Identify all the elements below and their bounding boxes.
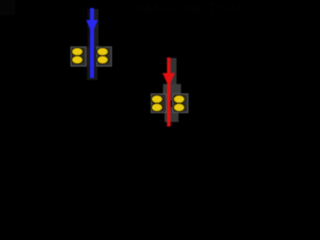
right unit: left orbital box: [151, 94, 166, 113]
blue spin arrow (down): [86, 8, 98, 78]
right unit: electron lobes left pair: [151, 95, 162, 112]
left unit: electron lobes left pair: [72, 48, 83, 65]
left unit: dark vertical lobe upper: [94, 9, 99, 47]
right unit: gray vertical lobe upper: [170, 58, 177, 84]
svg-text:DIAMAGNETISM: DIAMAGNETISM: [128, 0, 242, 17]
left unit: electron lobes right pair: [97, 48, 108, 65]
right unit: right orbital box: [173, 94, 188, 113]
left unit: center gap fill: [87, 47, 97, 66]
faint corner rectangle: [0, 0, 15, 15]
left unit: dark vertical lobe lower: [87, 66, 98, 80]
left unit: right orbital box: [97, 47, 112, 66]
left unit: left orbital box: [71, 47, 86, 66]
right unit: gray center gap fill: [167, 94, 173, 101]
right unit: electron lobes right pair: [173, 95, 184, 112]
right unit: gray vertical lobe lower: [165, 112, 179, 122]
red spin arrow (down): [163, 58, 176, 127]
